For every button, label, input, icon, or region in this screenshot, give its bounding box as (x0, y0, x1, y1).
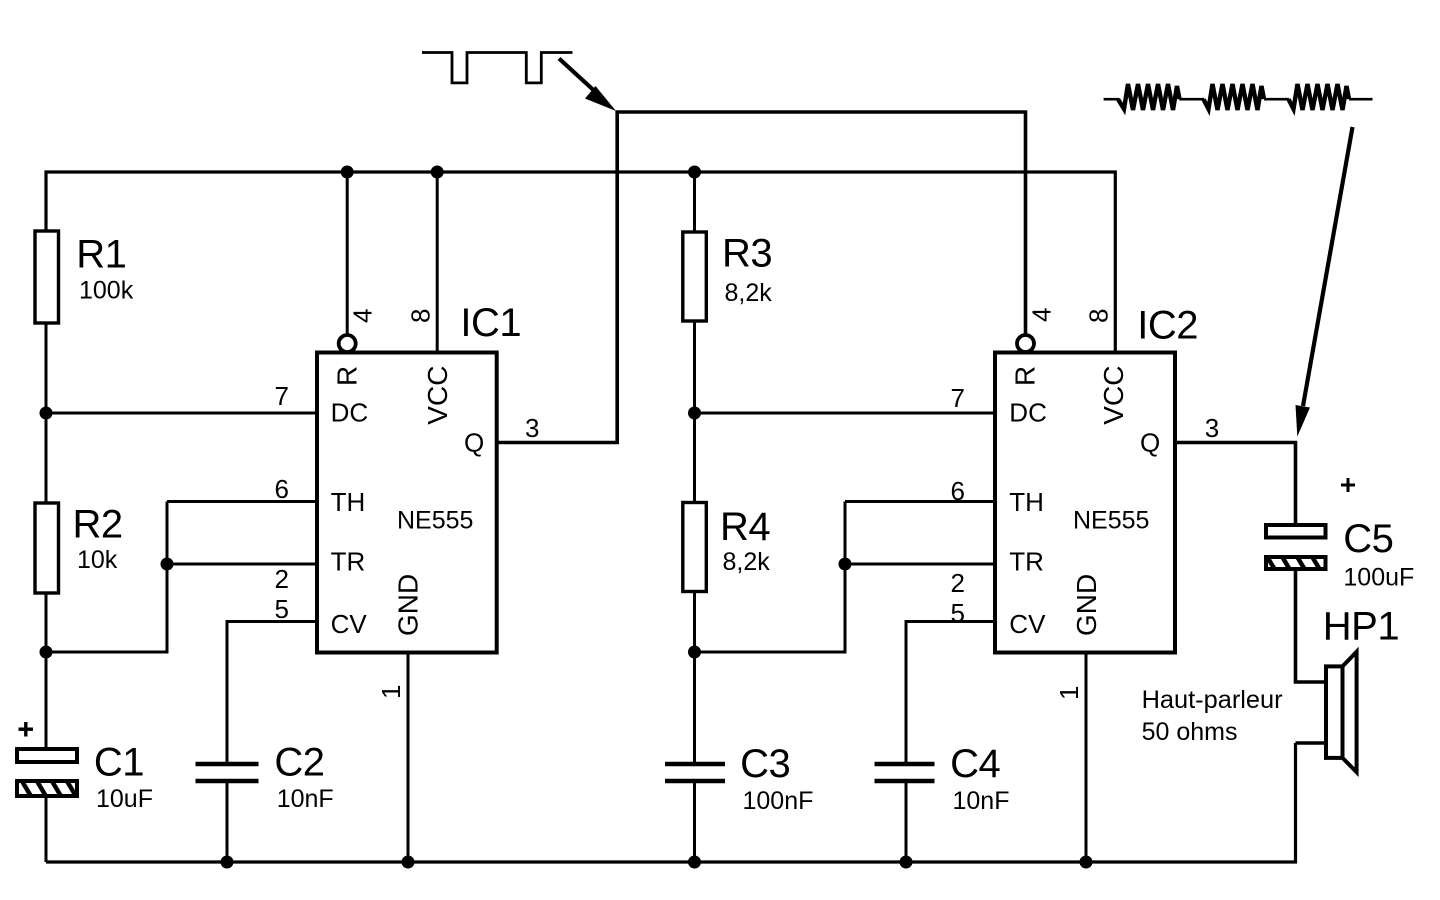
speaker HP1 (1142, 605, 1400, 773)
svg-text:R: R (332, 366, 363, 386)
annotation arrow from burst waveform to C5 node (1296, 127, 1353, 437)
node junction R2 bottom / C1 top (40, 646, 53, 659)
wire speaker bottom terminal (1296, 741, 1327, 745)
resistor R4 (683, 503, 771, 592)
wire R2-bottom feedback to TH/TR (46, 502, 167, 653)
svg-text:Haut-parleur: Haut-parleur (1142, 686, 1283, 714)
svg-text:10k: 10k (77, 546, 118, 574)
svg-text:HP1: HP1 (1323, 605, 1399, 649)
svg-text:C4: C4 (950, 742, 1000, 786)
svg-text:C2: C2 (274, 741, 324, 785)
svg-text:7: 7 (951, 383, 965, 413)
node junction R1/R2/IC1 pin7 (40, 407, 53, 420)
wire R4-bottom feedback to TH/TR of IC2 (695, 502, 846, 653)
wire R2 bottom to C1 and ground run (45, 593, 48, 749)
wire R1 bottom to node7 (45, 323, 48, 503)
resistor R2 (35, 503, 123, 594)
wire IC2 pin6 (TH) (845, 500, 995, 503)
svg-text:5: 5 (951, 598, 965, 628)
svg-text:4: 4 (348, 309, 378, 323)
svg-text:NE555: NE555 (1073, 507, 1149, 535)
svg-text:NE555: NE555 (397, 507, 473, 535)
svg-text:8,2k: 8,2k (723, 548, 771, 576)
IC2 reset bubble pin 4 (1017, 335, 1034, 352)
wire IC1 pin1 (GND) to ground rail (407, 652, 410, 862)
op-amp/timer IC1 (NE555) box (317, 301, 521, 653)
node junction ground rail / IC1 pin1 (402, 856, 415, 869)
svg-text:1: 1 (1054, 686, 1084, 700)
svg-text:R4: R4 (720, 505, 770, 549)
svg-text:IC1: IC1 (460, 301, 521, 345)
wire IC1 pin5 (CV) to C2 (227, 622, 317, 766)
svg-text:4: 4 (1027, 308, 1057, 322)
svg-text:3: 3 (1205, 413, 1219, 443)
node junction IC1 TR tap (161, 558, 174, 571)
svg-text:TR: TR (331, 547, 366, 577)
wire C2 bottom to ground (226, 780, 229, 862)
wire top VCC rail with left drop to R1 and right drop to IC2 pin 8 (46, 172, 1115, 352)
node junction VCC rail / IC1 pin4 (341, 166, 354, 179)
node junction VCC rail / R3 top (688, 166, 701, 179)
svg-text:100nF: 100nF (743, 787, 814, 815)
svg-text:GND: GND (393, 574, 424, 636)
wire IC2 pin2 (TR) (845, 563, 995, 566)
svg-text:IC2: IC2 (1137, 304, 1198, 348)
wire IC2 pin1 (GND) to ground rail (1085, 652, 1088, 862)
svg-text:TH: TH (331, 487, 366, 517)
svg-text:C1: C1 (94, 741, 144, 785)
svg-text:8,2k: 8,2k (725, 279, 773, 307)
svg-text:R1: R1 (76, 233, 126, 277)
node junction R4 bottom / C3 top (688, 646, 701, 659)
capacitor C1 (electrolytic, polarity +) (17, 722, 153, 813)
svg-text:CV: CV (331, 609, 368, 639)
annotation arrow from square wave to Q1 wire (559, 59, 616, 112)
IC1 reset bubble pin 4 (339, 335, 356, 352)
annotation tone-burst waveform (1104, 84, 1373, 110)
svg-text:10nF: 10nF (953, 787, 1010, 815)
svg-text:8: 8 (406, 309, 436, 323)
svg-text:CV: CV (1009, 609, 1046, 639)
wire IC2 pin3 Q to C5 (1175, 443, 1296, 526)
svg-text:100k: 100k (79, 277, 134, 305)
wire R4 bottom to C3 (693, 592, 696, 765)
svg-text:10nF: 10nF (277, 785, 334, 813)
node junction ground rail / C3 (688, 856, 701, 869)
svg-text:50 ohms: 50 ohms (1142, 718, 1238, 746)
capacitor C2 (196, 741, 334, 814)
svg-text:1: 1 (376, 685, 406, 699)
node junction R3/R4/IC2 pin7 (688, 407, 701, 420)
wire IC1 pin6 (TH) (167, 500, 317, 503)
svg-text:6: 6 (275, 474, 289, 504)
resistor R1 (35, 231, 134, 323)
svg-text:DC: DC (331, 398, 369, 428)
svg-text:R3: R3 (722, 232, 772, 276)
svg-text:R2: R2 (73, 503, 123, 547)
svg-text:C5: C5 (1343, 517, 1393, 561)
wire R3 bottom to node (693, 321, 696, 503)
svg-text:2: 2 (275, 564, 289, 594)
node junction ground rail / C2 (221, 856, 234, 869)
svg-text:100uF: 100uF (1343, 564, 1414, 592)
wire IC2 pin7 (DC) (695, 412, 996, 415)
svg-text:C3: C3 (740, 742, 790, 786)
wire IC1 pin2 (TR) (167, 563, 317, 566)
svg-text:3: 3 (525, 413, 539, 443)
node junction ground rail / IC2 pin1 (1080, 856, 1093, 869)
wire IC1 pin8 from rail to IC1 top (436, 172, 439, 352)
svg-text:8: 8 (1083, 309, 1113, 323)
node junction VCC rail / IC1 pin8 (431, 166, 444, 179)
svg-text:DC: DC (1009, 398, 1047, 428)
wire R3 top to VCC rail (693, 172, 696, 232)
node junction ground rail / C4 (900, 856, 913, 869)
wire IC1 pin4 from rail to reset bubble (346, 172, 349, 336)
svg-text:R: R (1010, 366, 1041, 386)
wire ground bottom rail (46, 743, 1296, 862)
wire IC1 pin3 Q to IC2 reset (497, 112, 1026, 443)
svg-text:10uF: 10uF (96, 785, 153, 813)
wire IC2 pin5 (CV) to C4 (906, 622, 995, 766)
svg-text:VCC: VCC (1098, 366, 1129, 425)
svg-text:Q: Q (1140, 428, 1160, 458)
resistor R3 (683, 232, 772, 322)
wire C4 bottom to ground (905, 780, 908, 862)
svg-text:7: 7 (275, 381, 289, 411)
wire IC1 pin7 (DC) (46, 412, 317, 415)
capacitor C5 (electrolytic, polarity +) (1266, 478, 1414, 592)
svg-text:Q: Q (464, 428, 484, 458)
wire C3 bottom to ground (693, 780, 696, 862)
op-amp/timer IC2 (NE555) box (995, 304, 1198, 653)
wire C5 bottom to speaker top terminal (1296, 569, 1327, 682)
svg-text:VCC: VCC (422, 366, 453, 425)
node junction IC2 TR tap (839, 558, 852, 571)
svg-text:2: 2 (951, 568, 965, 598)
capacitor C4 (875, 742, 1010, 815)
svg-text:6: 6 (951, 476, 965, 506)
svg-text:GND: GND (1071, 574, 1102, 636)
svg-text:TH: TH (1009, 487, 1044, 517)
svg-text:TR: TR (1009, 547, 1044, 577)
capacitor C3 (665, 742, 813, 815)
svg-text:5: 5 (275, 594, 289, 624)
wire C1 bottom to ground rail (45, 795, 48, 862)
annotation square wave symbol (422, 53, 573, 83)
